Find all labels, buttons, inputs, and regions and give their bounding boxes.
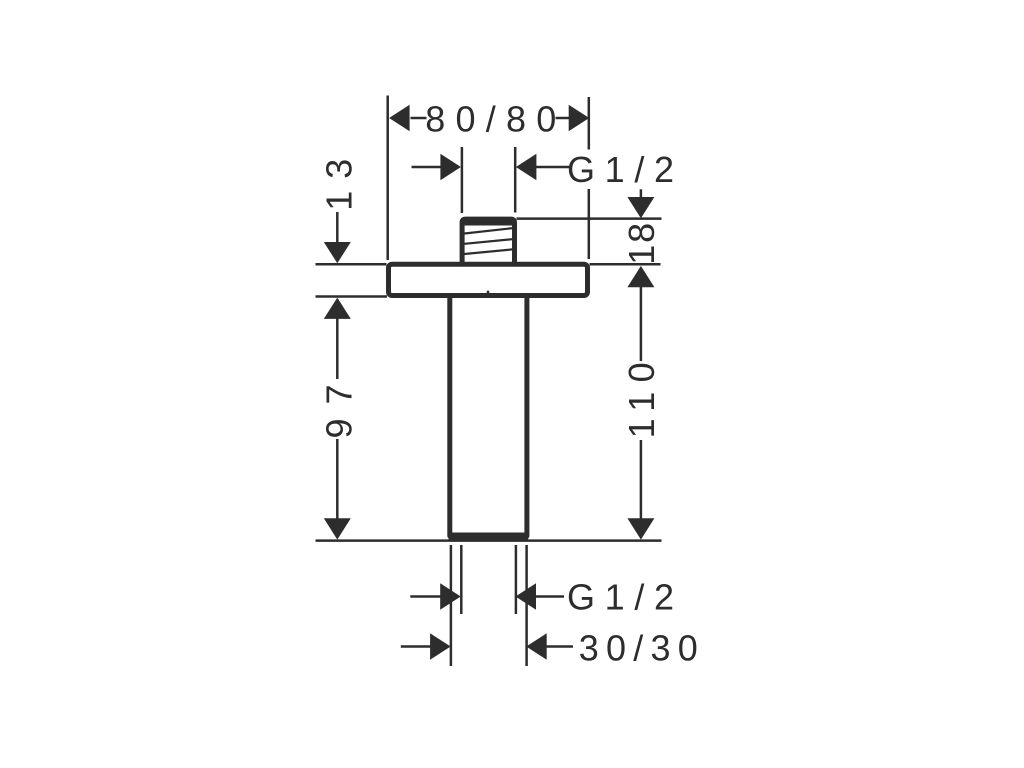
svg-text:13: 13 [319, 159, 360, 211]
svg-text:G1/2: G1/2 [567, 149, 674, 190]
svg-text:80/80: 80/80 [425, 99, 556, 140]
svg-text:97: 97 [319, 385, 360, 439]
svg-text:18: 18 [621, 223, 662, 265]
svg-text:110: 110 [621, 362, 662, 438]
svg-text:G1/2: G1/2 [567, 577, 674, 618]
svg-text:30/30: 30/30 [579, 628, 698, 669]
